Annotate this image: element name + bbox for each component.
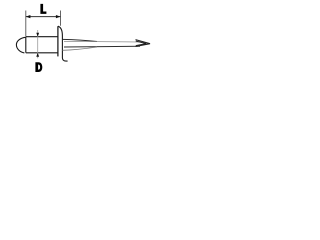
flange head, front face bbox=[57, 26, 59, 56]
mandrel stem cone, outer bottom edge bbox=[62, 47, 97, 50]
arrowhead D bottom bbox=[36, 53, 39, 57]
mandrel stem rod, bottom edge bbox=[64, 45, 140, 48]
extension line left (L), collinear with head face bbox=[25, 11, 27, 37]
mandrel head dome bbox=[16, 37, 25, 53]
arrowhead L left bbox=[26, 15, 31, 18]
rivet body bbox=[26, 37, 58, 53]
arrowhead L right bbox=[56, 15, 61, 18]
label L (vector glyph) bbox=[40, 4, 46, 14]
dimension line D (through body) bbox=[37, 30, 39, 58]
flange head, rim outline with bottom hook bbox=[58, 26, 68, 61]
mandrel stem rod, top edge bbox=[64, 40, 140, 43]
dimension line L bbox=[26, 16, 61, 18]
extension line right (L) bbox=[60, 11, 62, 26]
arrowhead D top bbox=[36, 33, 39, 37]
mandrel stem cone, outer top edge bbox=[62, 39, 97, 41]
mandrel tip bbox=[136, 40, 151, 47]
mandrel tip inner chevron bbox=[136, 41, 147, 46]
label D (vector glyph) bbox=[35, 62, 42, 72]
